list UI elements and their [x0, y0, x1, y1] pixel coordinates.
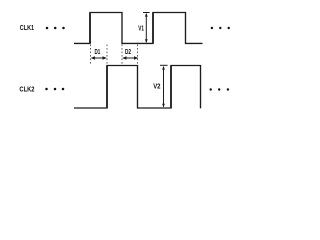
V2 dimension arrow [160, 65, 168, 107]
dimension arrow D1 [91, 56, 107, 59]
ellipsis dots left of CLK2 [45, 88, 64, 91]
CLK2 waveform [74, 66, 201, 109]
extension line CLK1 rising edge [90, 45, 92, 65]
extension line CLK1 falling edge [121, 45, 123, 65]
V1 dimension arrow [143, 13, 150, 43]
CLK2 rising edge 1 (thicker) [106, 66, 108, 109]
CLK2 rising edge 2 (thicker) [170, 66, 172, 109]
svg-text:CLK2: CLK2 [19, 86, 34, 93]
CLK1 rising edge 2 (thicker) [152, 13, 154, 44]
svg-text:CLK1: CLK1 [20, 25, 34, 32]
CLK1 rising edge 1 (thicker) [89, 13, 91, 44]
svg-text:D2: D2 [125, 49, 131, 56]
ellipsis dots right of CLK2 [210, 88, 230, 90]
svg-text:V2: V2 [153, 84, 160, 91]
dimension arrow D2 [122, 56, 138, 59]
ellipsis dots right of CLK1 [211, 27, 230, 29]
CLK1 waveform [74, 13, 203, 44]
svg-text:V1: V1 [138, 26, 144, 33]
ellipsis dots left of CLK1 [46, 27, 65, 30]
svg-text:D1: D1 [95, 49, 101, 56]
extension line CLK2 falling edge [137, 45, 139, 65]
extension line CLK2 rising edge [106, 45, 108, 65]
